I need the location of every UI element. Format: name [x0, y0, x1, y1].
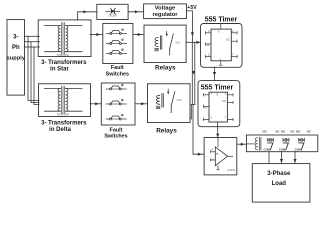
- wire fault switches 2 to relays 2: [135, 102, 148, 105]
- svg-text:3- Transformers: 3- Transformers: [41, 60, 87, 66]
- svg-text:TRAN 3PH: TRAN 3PH: [56, 53, 69, 57]
- 555 IC U2 body: [209, 92, 227, 122]
- U2 pin left 2: [204, 106, 210, 108]
- U3 input -: [211, 159, 216, 161]
- wire supply to star phase B: [25, 46, 40, 48]
- svg-text:supply: supply: [7, 56, 26, 62]
- transformer T2 primary coil: [58, 88, 60, 111]
- bus vertical +5V branch B: [192, 42, 195, 104]
- relay K2 coil: [157, 95, 160, 104]
- fault switch S2: [106, 39, 126, 45]
- contactor box: [246, 135, 317, 152]
- wire bus to comparator: [193, 104, 204, 155]
- U2 pin right 1: [227, 94, 233, 96]
- svg-text:Gr: Gr: [205, 105, 208, 109]
- svg-text:Gr: Gr: [207, 43, 210, 47]
- transformer T2 leads: [44, 87, 60, 89]
- svg-text:NO: NO: [281, 130, 286, 134]
- svg-text:_: _: [210, 156, 214, 160]
- svg-text:TRAN 3PH: TRAN 3PH: [56, 113, 69, 117]
- transformer T1 primary coil: [58, 26, 60, 52]
- U2 pin labels: [205, 91, 227, 119]
- 3-Transformers in Star box: [38, 20, 91, 57]
- svg-text:regulator: regulator: [152, 12, 178, 18]
- 555 IC U1 body: [211, 29, 231, 61]
- wire fault switches 1 to relays 1: [133, 33, 144, 36]
- wire 555 timer 2 bottom pin to comparator: [216, 122, 219, 138]
- fault switch S1: [106, 29, 126, 35]
- svg-text:3-: 3-: [13, 34, 18, 40]
- svg-text:555 Timer: 555 Timer: [205, 17, 238, 24]
- transformer T2 core: [61, 86, 63, 114]
- svg-text:8: 8: [217, 93, 219, 97]
- Fault Switches box 1: [103, 23, 133, 63]
- wire contactor to load phase 3: [293, 152, 296, 164]
- wire diode to regulator: [128, 10, 144, 13]
- svg-text:3- Transformers: 3- Transformers: [41, 120, 87, 126]
- U1 pin bottom: [220, 61, 222, 65]
- svg-text:Fault: Fault: [110, 127, 123, 133]
- svg-text:2: 2: [208, 53, 210, 57]
- svg-text:Ph: Ph: [12, 45, 20, 51]
- fault switch S3: [106, 49, 126, 55]
- bus jog: [191, 103, 195, 105]
- svg-text:in Star: in Star: [50, 66, 69, 72]
- contactor coil lead: [246, 143, 254, 145]
- U1 pin left 2: [206, 43, 212, 45]
- Voltage regulator box: [144, 4, 187, 19]
- U1 pin left 1: [206, 32, 212, 34]
- op-amp U3 triangle: [215, 147, 227, 166]
- contactor labels NO NC: [263, 130, 312, 134]
- svg-text:1: 1: [220, 57, 222, 61]
- wire supply to star phase R: [25, 35, 40, 37]
- fault switch S6: [106, 114, 126, 120]
- svg-text:NC: NC: [307, 130, 311, 134]
- relay K2 switch: [167, 89, 169, 93]
- transformer T1 leads: [44, 25, 60, 27]
- svg-text:COM: COM: [279, 148, 286, 152]
- U1 pin right 1: [231, 32, 237, 34]
- relay K1 switch: [166, 31, 168, 35]
- svg-text:NC: NC: [276, 130, 280, 134]
- wire star top to diode: [78, 10, 97, 20]
- svg-text:+5V: +5V: [187, 5, 197, 11]
- wire bus drop 2 to delta: [31, 42, 39, 103]
- svg-text:555 Timer: 555 Timer: [201, 85, 234, 92]
- fault switch S5: [106, 99, 126, 105]
- contactor coil: [255, 138, 258, 150]
- U1 pin left 3: [206, 56, 212, 58]
- relay K2 core: [161, 94, 163, 107]
- svg-text:2: 2: [211, 116, 213, 120]
- svg-text:COM: COM: [295, 148, 302, 152]
- U3 inverting dot: [216, 153, 217, 154]
- Relays box 2: [148, 84, 191, 123]
- svg-text:Voltage: Voltage: [155, 6, 176, 12]
- contact group 1: [264, 138, 274, 151]
- svg-text:12V: 12V: [177, 98, 182, 102]
- svg-text:7: 7: [232, 53, 234, 57]
- svg-text:NC: NC: [291, 130, 295, 134]
- 3-Phase Load box: [252, 164, 310, 203]
- svg-text:8: 8: [218, 29, 220, 33]
- transformer T1 secondary coil: [66, 26, 68, 52]
- 555 Timer 1 box: [201, 24, 243, 68]
- wire relays 2 to bus: [190, 104, 191, 119]
- U3 output stub: [228, 155, 233, 157]
- svg-text:3: 3: [232, 29, 234, 33]
- svg-text:3-Phase: 3-Phase: [267, 171, 291, 177]
- wire bus drop 1 to delta: [28, 36, 39, 100]
- 3-Ph supply box: [7, 20, 26, 96]
- svg-text:Fault: Fault: [111, 65, 124, 71]
- U2 pin left 3: [204, 118, 210, 120]
- comparator box: [204, 138, 237, 175]
- transformer T2 secondary coil: [66, 88, 68, 111]
- wire supply to star phase Y: [25, 41, 40, 43]
- contact group 3: [295, 138, 305, 151]
- relay K1 coil: [155, 38, 158, 47]
- svg-text:Switches: Switches: [106, 72, 129, 78]
- svg-text:COM: COM: [264, 148, 271, 152]
- svg-text:Relays: Relays: [155, 65, 176, 72]
- svg-text:DC: DC: [226, 38, 230, 42]
- wire delta to fault switches 2: [90, 102, 101, 105]
- diode D1 symbol: [106, 10, 111, 12]
- svg-text:Relays: Relays: [156, 127, 177, 134]
- wire bus drop 3 to delta: [34, 47, 39, 105]
- Relays box 1: [144, 25, 186, 62]
- U1 pin right 2: [231, 40, 237, 42]
- fault switch S4: [106, 84, 126, 90]
- wire contactor to load phase 1: [268, 152, 270, 164]
- wire contactor to load phase 2: [280, 152, 283, 164]
- svg-text:7: 7: [225, 116, 227, 120]
- U2 pin right 2: [227, 102, 233, 104]
- U3 bottom rail: [217, 166, 219, 170]
- 3-Transformers in Delta box: [39, 84, 91, 117]
- Fault Switches box 2: [101, 83, 135, 125]
- U1 pin right 3: [231, 56, 237, 58]
- contactor core: [259, 137, 261, 150]
- svg-text:NO: NO: [263, 130, 268, 134]
- U3 input +: [211, 151, 216, 153]
- wire comparator to contactor: [237, 143, 247, 146]
- relay K1 core: [159, 36, 161, 49]
- svg-text:Load: Load: [272, 181, 287, 187]
- svg-text:in Delta: in Delta: [49, 127, 71, 133]
- svg-text:12V: 12V: [175, 40, 180, 44]
- +5V net: [187, 5, 198, 42]
- U3 top rail: [217, 138, 219, 147]
- svg-text:Switches: Switches: [104, 134, 127, 140]
- U2 pin left 1: [204, 94, 210, 96]
- svg-text:4: 4: [208, 29, 210, 33]
- svg-text:DC: DC: [223, 99, 227, 103]
- diode box: [97, 4, 128, 19]
- wire star to fault switches 1: [90, 33, 103, 36]
- transformer T1 core: [61, 22, 63, 54]
- bus vertical +5V branch A: [191, 42, 193, 104]
- wire 555 timer 1 to 555 timer 2: [213, 67, 216, 80]
- contact group 2: [279, 138, 289, 151]
- svg-text:DIODE: DIODE: [109, 13, 117, 17]
- U1 pin top: [220, 24, 222, 30]
- svg-text:LM339: LM339: [227, 168, 235, 172]
- 555 Timer 2 box: [198, 81, 240, 127]
- svg-text:NO: NO: [296, 130, 301, 134]
- U2 pin right 3: [227, 118, 233, 120]
- U1 pin labels: [207, 29, 235, 61]
- wire relays 1 to 555 timer 1: [186, 41, 200, 44]
